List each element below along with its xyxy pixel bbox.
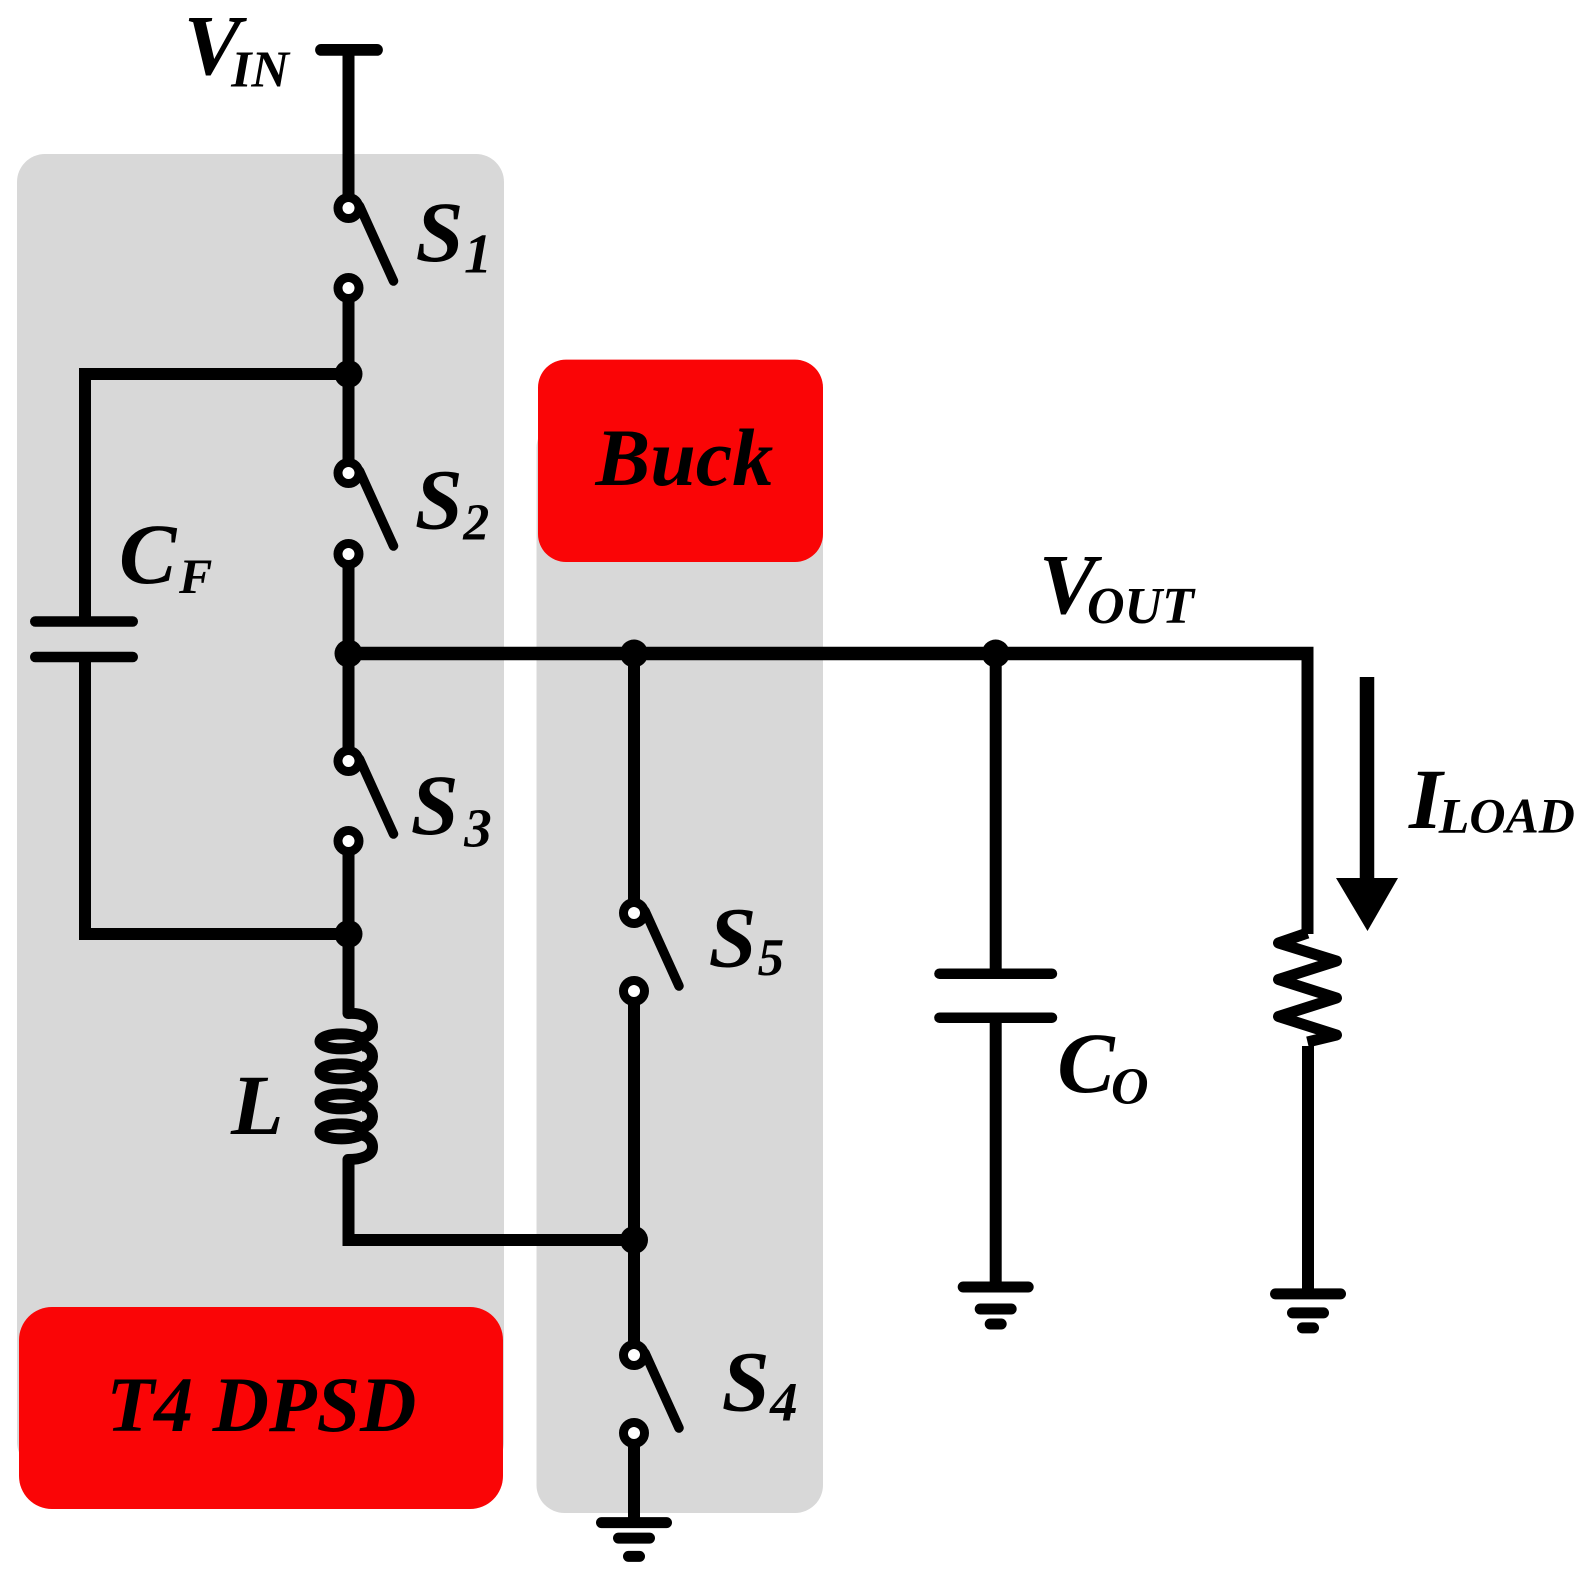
svg-text:T4 DPSD: T4 DPSD	[107, 1361, 417, 1448]
svg-text:LOAD: LOAD	[1438, 788, 1575, 844]
svg-text:L: L	[230, 1057, 284, 1153]
svg-text:S: S	[416, 184, 464, 280]
svg-text:Buck: Buck	[595, 412, 774, 503]
svg-text:O: O	[1111, 1059, 1149, 1116]
svg-text:OUT: OUT	[1087, 578, 1196, 635]
svg-text:1: 1	[464, 223, 492, 285]
svg-text:IN: IN	[230, 42, 291, 99]
svg-text:5: 5	[758, 929, 785, 987]
svg-text:C: C	[119, 506, 178, 602]
svg-text:S: S	[709, 889, 757, 985]
svg-text:F: F	[178, 548, 212, 604]
svg-text:C: C	[1057, 1015, 1116, 1111]
svg-text:2: 2	[462, 494, 489, 551]
svg-text:S: S	[415, 451, 463, 547]
svg-text:3: 3	[463, 798, 492, 859]
svg-text:S: S	[411, 757, 459, 853]
svg-text:4: 4	[769, 1372, 798, 1433]
svg-text:S: S	[722, 1333, 770, 1429]
